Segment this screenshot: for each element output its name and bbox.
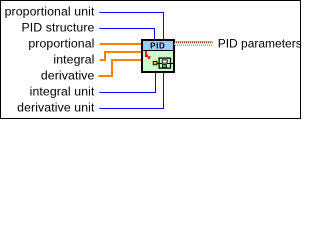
divider [141,50,175,51]
red arrow glyph [146,51,151,60]
wire derivative (orange, step bend) [99,60,142,76]
wire PID structure (blue) [100,29,155,41]
wire integral (orange, step bend) [100,52,142,60]
wire proportional (orange) [100,43,142,45]
PID node U1 [141,40,175,72]
cluster wire weave highlight [175,43,213,45]
svg-text:integral unit: integral unit [30,85,95,99]
cluster glyph [153,58,173,68]
LabVIEW-style PID parameter bundle diagram [0,0,305,121]
source square [153,61,157,64]
svg-text:derivative: derivative [41,69,95,83]
border frame [1,1,301,119]
icon body [142,40,174,72]
inner cream rect [162,60,167,63]
outer box [159,58,170,68]
svg-text:PID: PID [150,41,165,50]
svg-text:PID structure: PID structure [21,21,94,35]
blue title band [143,41,173,50]
svg-text:proportional: proportional [28,37,94,51]
svg-text:derivative unit: derivative unit [17,101,95,115]
wire integral unit (blue) [100,71,156,93]
wire derivative unit (blue) [100,71,164,109]
output cluster wire [175,42,213,46]
inner green rect [162,65,166,68]
svg-text:PID parameters: PID parameters [218,37,302,51]
wire proportional unit (blue) [100,13,164,41]
wire through [157,63,173,65]
svg-text:integral: integral [53,53,94,67]
svg-text:proportional unit: proportional unit [5,5,95,19]
